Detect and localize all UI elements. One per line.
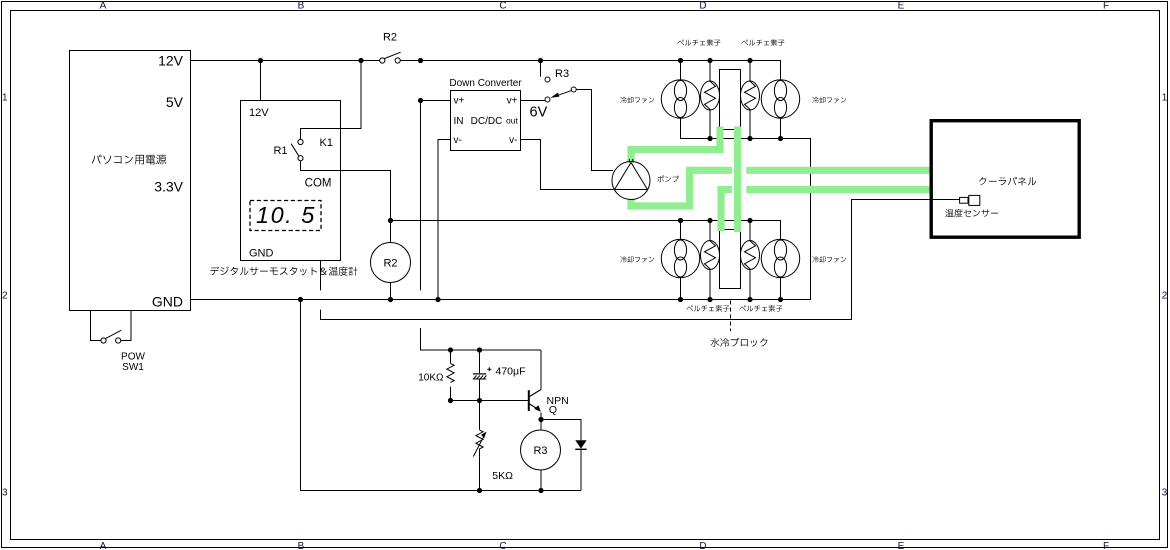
svg-text:F: F [1103, 541, 1109, 550]
svg-text:A: A [100, 541, 107, 550]
svg-text:K1: K1 [320, 137, 333, 149]
svg-text:out: out [506, 115, 518, 125]
svg-text:F: F [1103, 1, 1109, 12]
svg-text:R2: R2 [383, 258, 397, 270]
svg-text:v+: v+ [507, 95, 518, 106]
svg-text:R3: R3 [555, 68, 569, 80]
svg-text:R3: R3 [533, 445, 547, 457]
svg-text:1: 1 [2, 92, 8, 103]
svg-text:v-: v- [509, 135, 517, 146]
svg-text:DC/DC: DC/DC [471, 116, 503, 127]
svg-text:A: A [100, 1, 107, 12]
svg-text:E: E [898, 1, 905, 12]
svg-text:1: 1 [1162, 92, 1168, 103]
svg-text:v+: v+ [454, 95, 465, 106]
svg-text:v-: v- [454, 135, 462, 146]
svg-text:6V: 6V [530, 105, 548, 121]
svg-text:D: D [699, 541, 706, 550]
svg-text:3.3V: 3.3V [154, 178, 183, 194]
svg-text:5V: 5V [166, 94, 184, 110]
svg-text:B: B [298, 1, 305, 12]
svg-text:SW1: SW1 [122, 362, 144, 373]
svg-text:COM: COM [305, 177, 332, 189]
svg-text:3: 3 [1162, 487, 1168, 498]
svg-text:GND: GND [249, 248, 274, 260]
svg-text:Q: Q [549, 404, 557, 416]
svg-text:IN: IN [454, 116, 464, 127]
svg-text:2: 2 [2, 290, 8, 301]
svg-text:E: E [898, 541, 905, 550]
svg-text:10. 5: 10. 5 [256, 202, 316, 228]
svg-text:GND: GND [152, 293, 183, 309]
svg-text:12V: 12V [158, 52, 184, 68]
svg-text:C: C [499, 1, 506, 12]
svg-text:5KΩ: 5KΩ [492, 470, 513, 482]
svg-text:10KΩ: 10KΩ [418, 373, 444, 384]
svg-text:470μF: 470μF [496, 366, 526, 378]
svg-text:R2: R2 [383, 31, 397, 43]
svg-text:R1: R1 [273, 145, 287, 157]
svg-text:C: C [499, 541, 506, 550]
svg-text:POW: POW [121, 351, 145, 362]
svg-text:12V: 12V [249, 107, 269, 119]
svg-text:3: 3 [2, 487, 8, 498]
svg-text:B: B [298, 541, 305, 550]
svg-text:2: 2 [1162, 290, 1168, 301]
svg-text:D: D [699, 1, 706, 12]
svg-text:Down Converter: Down Converter [449, 78, 522, 89]
